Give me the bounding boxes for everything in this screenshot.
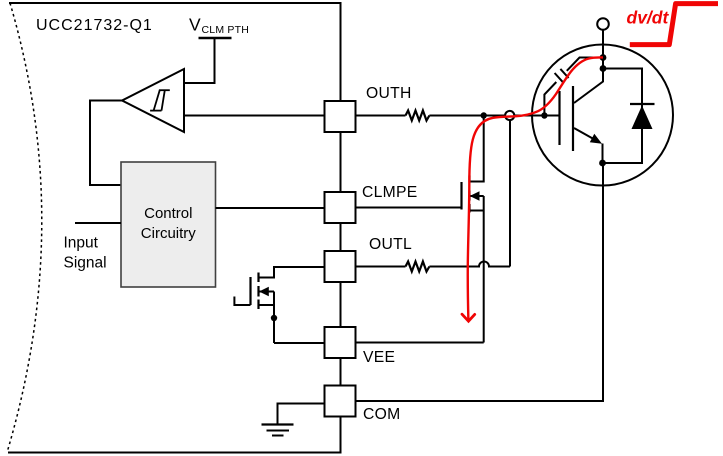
drain wire of Q1 to OUTL pin — [259, 267, 325, 278]
capacitor plate ticks — [555, 73, 563, 82]
junction dot Q1 source — [271, 315, 277, 321]
body arrow of Q2 — [470, 191, 480, 201]
svg-text:Signal: Signal — [64, 255, 107, 272]
svg-text:VEE: VEE — [363, 349, 395, 366]
collector terminal open circle — [597, 18, 609, 30]
ground — [262, 425, 294, 436]
drain lead of Q2 — [470, 116, 484, 182]
svg-text:UCC21732-Q1: UCC21732-Q1 — [36, 17, 153, 34]
source lead of Q2 — [470, 210, 484, 212]
wire: IC box top border — [9, 2, 342, 4]
wire COM to IGBT emitter — [356, 163, 604, 401]
svg-text:OUTH: OUTH — [366, 85, 412, 102]
resistor R2 on OUTL — [406, 262, 430, 272]
red arrowhead of Miller current path — [462, 314, 475, 321]
wire VCLMPTH to comparator reference input — [184, 38, 215, 83]
source lead of Q1 — [259, 304, 275, 306]
pin OUTL — [325, 251, 356, 282]
wire Q1 source to VEE pin — [274, 342, 325, 344]
svg-text:CLM PTH: CLM PTH — [202, 24, 250, 36]
channel segments of Q1 — [257, 273, 259, 283]
label Input Signal — [64, 235, 107, 272]
wire OUTL to resistor — [356, 266, 406, 268]
gate bar of Q1 — [249, 277, 251, 305]
source/body vertical of Q1 — [273, 292, 275, 344]
IGBT emitter lead — [574, 128, 599, 142]
gate bar of Q2 — [460, 182, 462, 210]
junction dot collector / diode — [600, 65, 607, 72]
resistor R1 gate resistor on OUTH — [406, 111, 430, 121]
hysteresis symbol inside U1 — [150, 90, 170, 110]
pin VEE — [325, 327, 356, 358]
svg-text:Input: Input — [64, 235, 99, 252]
dashed IC left boundary — [7, 3, 42, 453]
freewheeling diode branch — [603, 69, 642, 164]
pin OUTH — [325, 101, 356, 132]
pin CLMPE — [325, 192, 356, 223]
wire comparator output to control circuitry — [90, 101, 122, 186]
junction dot emitter / diode — [599, 160, 606, 167]
red dv/dt step symbol — [630, 4, 718, 45]
net: pin rail bus (IC right edge) — [340, 3, 342, 453]
junction dot gate / Miller branch — [541, 112, 547, 118]
wire OUTL with hop over Q2 source line — [429, 262, 510, 267]
wire collector terminal down — [602, 30, 604, 69]
red Miller current path — [468, 57, 603, 321]
IGBT collector lead — [574, 69, 603, 104]
parasitic Miller capacitor branch — [544, 58, 603, 116]
op-amp U1: Schmitt comparator triangle — [122, 69, 184, 132]
wire: IC box bottom border — [8, 452, 342, 454]
junction dot OUTH / Q2 drain — [481, 112, 487, 118]
svg-text:OUTL: OUTL — [369, 236, 412, 253]
wire OUTH to gate resistor — [356, 115, 406, 117]
diode D1 triangle — [632, 106, 653, 130]
wire emitter down — [602, 144, 604, 164]
wire CLMPE to gate of Q2 — [356, 207, 462, 209]
channel segments of Q2 — [468, 176, 470, 183]
gate stub of Q1 — [234, 297, 250, 306]
IGBT gate bar — [558, 91, 560, 145]
supply VCLMPTH bar — [199, 37, 232, 39]
wire comparator input from OUTH pin — [184, 115, 325, 117]
body arrow of Q1 — [259, 287, 269, 297]
source/body vertical of Q2 down to VEE — [483, 196, 485, 343]
svg-text:COM: COM — [363, 406, 401, 423]
IGBT body circle — [532, 45, 673, 186]
block: Control Circuitry — [121, 162, 216, 287]
supply VCLMPTH label — [189, 15, 249, 37]
transistor Q2: external Miller clamp FET — [462, 116, 484, 343]
IGBT channel bar — [572, 86, 574, 151]
wire VEE to Q2 source — [356, 342, 484, 344]
diode D1 cathode bar — [630, 103, 655, 105]
transistor Q1: internal pulldown FET — [234, 267, 324, 343]
body lead of Q2 — [470, 195, 484, 197]
wire control circuitry to CLMPE pin — [216, 207, 325, 209]
svg-text:CLMPE: CLMPE — [362, 184, 418, 201]
svg-text:dv/dt: dv/dt — [627, 8, 670, 28]
svg-text:Circuitry: Circuitry — [141, 225, 196, 242]
IGBT emitter arrow — [590, 134, 602, 144]
wire OUTL feedback up to gate node — [509, 120, 511, 266]
pin COM — [325, 386, 356, 417]
node: gate terminal open circle — [505, 111, 514, 120]
wire COM to ground — [278, 404, 325, 425]
wire input signal — [75, 222, 121, 224]
svg-text:V: V — [189, 15, 201, 35]
junction dot collector / Miller cap — [600, 54, 607, 61]
wire resistor to IGBT gate — [429, 115, 559, 117]
svg-text:Control: Control — [144, 205, 192, 222]
body lead of Q1 — [259, 291, 274, 293]
